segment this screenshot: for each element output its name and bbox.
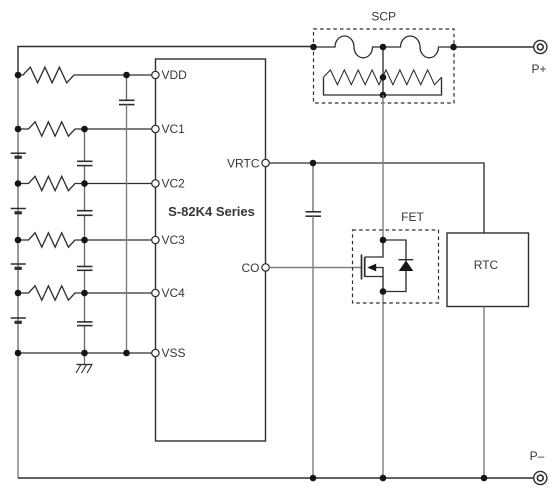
wire cap ladder segment 2 (84, 166, 86, 211)
svg-text:VC2: VC2 (162, 177, 186, 191)
wire top rail from battery plus to SCP (18, 47, 314, 76)
junction VDD battery top (15, 72, 22, 79)
wire bottom rail to P- terminal (18, 477, 533, 479)
wire bypass cap down to VSS node (126, 105, 128, 353)
junction bottom rail RTC (481, 475, 488, 482)
svg-text:SCP: SCP (371, 10, 396, 24)
junction VC4 battery (15, 290, 22, 297)
junction VC4 cap (81, 290, 88, 297)
wire CO pin to FET gate (269, 267, 361, 269)
wire VRTC pin to RTC (269, 163, 484, 233)
junction VRTC node (310, 160, 317, 167)
wire cap ladder segment 5 (84, 326, 86, 353)
wire VDD node to bypass cap (126, 75, 128, 100)
junction SCP right (450, 44, 457, 51)
wire VRTC node to cap C6 (312, 163, 314, 212)
wire VSS row (18, 352, 152, 354)
capacitor C1 (VC1) (77, 161, 93, 165)
fuse element F2 (right) (383, 36, 454, 58)
terminal P- (530, 449, 547, 485)
resistor VDD sense (top row) (18, 67, 127, 83)
wire SCP center tap (382, 47, 384, 95)
capacitor C6 (VRTC) (306, 212, 322, 216)
heater resistor frame wires (324, 77, 442, 95)
wire VC4 node to VC4 pin (85, 292, 152, 294)
terminal P+ (531, 40, 546, 76)
junction heater center (380, 74, 387, 81)
pin VC2 (152, 177, 185, 191)
body diode D1 (383, 240, 413, 292)
svg-text:P–: P– (530, 449, 545, 463)
pin VSS (152, 346, 186, 360)
junction bottom rail FET (380, 475, 387, 482)
svg-text:VDD: VDD (162, 68, 188, 82)
svg-text:VSS: VSS (162, 346, 186, 360)
pin VC4 (152, 286, 185, 300)
resistor VC1 sense (18, 122, 85, 136)
svg-text:VC3: VC3 (162, 233, 186, 247)
resistor VC4 sense (18, 286, 85, 300)
junction VC2 cap (81, 180, 88, 187)
svg-text:RTC: RTC (474, 258, 499, 272)
junction VC1 cap (81, 126, 88, 133)
transistor Q1 MOSFET (362, 240, 384, 292)
junction VC3 battery (15, 237, 22, 244)
battery cell BT2 (11, 209, 26, 213)
svg-text:VRTC: VRTC (227, 156, 260, 170)
svg-text:CO: CO (242, 261, 260, 275)
battery cell BT3 (11, 264, 26, 268)
capacitor C4 (VC4) (77, 322, 93, 326)
pin CO (242, 261, 270, 275)
junction VDD bypass top (123, 72, 130, 79)
battery cell BT1 (11, 153, 26, 157)
wire cap ladder segment 4 (84, 270, 86, 322)
pin VDD (152, 68, 187, 82)
junction VSS battery bottom (15, 350, 22, 357)
battery cell BT4 (11, 318, 26, 322)
wire cap C6 to bottom rail (312, 216, 314, 478)
junction VC3 cap (81, 237, 88, 244)
wire VDD node to VDD pin (127, 74, 152, 76)
FET dashed box (353, 230, 439, 303)
junction VSS ground node (81, 350, 88, 357)
wire cap ladder segment 1 (84, 129, 86, 161)
ground symbol at VSS (76, 353, 93, 373)
heater resistor of SCP (324, 70, 442, 85)
wire VSS node down to bottom rail (17, 353, 19, 478)
svg-text:P+: P+ (531, 62, 546, 76)
junction SCP left (310, 44, 317, 51)
junction FET source (380, 288, 387, 295)
svg-text:S-82K4 Series: S-82K4 Series (168, 204, 255, 219)
junction SCP middle (380, 44, 387, 51)
resistor VC2 sense (18, 176, 85, 190)
resistor VC3 sense (18, 233, 85, 247)
pin VC1 (152, 122, 185, 136)
capacitor C5 (VDD bypass) (119, 100, 135, 104)
wire battery stack column (17, 75, 19, 353)
wire VC1 node to VC1 pin (85, 128, 152, 130)
wire VC2 node to VC2 pin (85, 183, 152, 185)
pin VC3 (152, 233, 185, 247)
junction FET drain (380, 237, 387, 244)
junction heater bottom (380, 92, 387, 99)
wire SCP bottom to FET drain (382, 95, 384, 240)
SCP dashed box (314, 29, 455, 103)
wire SCP to P+ terminal (454, 46, 534, 48)
wire cap ladder segment 3 (84, 215, 86, 266)
RTC block box (447, 233, 529, 307)
junction bottom rail cap (310, 475, 317, 482)
wire FET source to bottom rail (382, 292, 384, 479)
wire RTC to bottom rail (483, 307, 485, 479)
svg-text:FET: FET (401, 210, 424, 224)
pin VRTC (227, 156, 269, 170)
capacitor C3 (VC3) (77, 267, 93, 271)
wire VC3 node to VC3 pin (85, 239, 152, 241)
junction VC1 battery (15, 126, 22, 133)
IC U1 S-82K4 Series box (156, 59, 266, 441)
fuse element F1 (left) (314, 36, 384, 58)
capacitor C2 (VC2) (77, 211, 93, 216)
junction VC2 battery (15, 180, 22, 187)
junction VSS bypass bottom (123, 350, 130, 357)
svg-text:VC4: VC4 (162, 286, 186, 300)
svg-text:VC1: VC1 (162, 122, 186, 136)
